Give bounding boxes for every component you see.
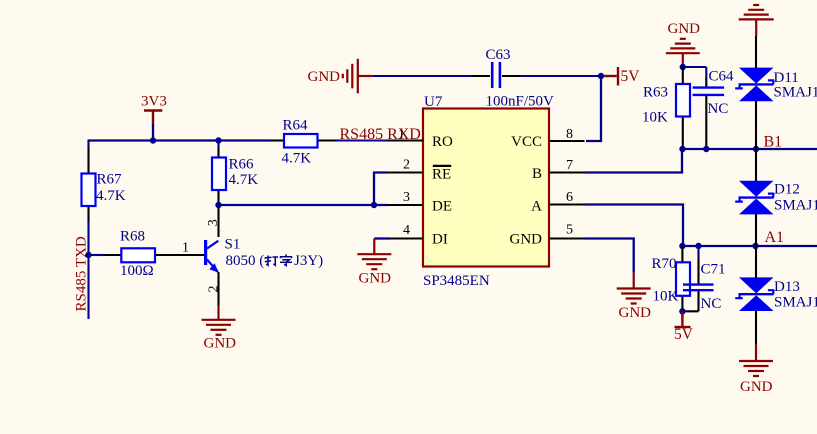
wire D12-A	[755, 214, 757, 246]
svg-text:4: 4	[403, 223, 410, 238]
wire RE drop	[374, 173, 388, 206]
wire GND net (pin5)	[585, 239, 634, 273]
svg-text:R68: R68	[120, 229, 145, 245]
svg-text:100Ω: 100Ω	[120, 263, 154, 279]
svg-text:B1: B1	[764, 134, 783, 151]
svg-text:RO: RO	[432, 134, 453, 150]
svg-text:RS485 TXD: RS485 TXD	[74, 236, 90, 311]
wire left vertical TXD	[87, 140, 89, 320]
svg-text:NC: NC	[708, 101, 729, 117]
diode D13 (TVS)	[735, 277, 774, 311]
node R70 bottom junction	[679, 308, 685, 314]
svg-text:DE: DE	[432, 199, 452, 215]
svg-text:7: 7	[566, 158, 573, 173]
diode D11 (TVS)	[735, 68, 774, 102]
svg-text:R66: R66	[229, 157, 255, 173]
ground (S1 emitter)	[202, 320, 236, 335]
node B/R63	[679, 146, 685, 152]
svg-text:R64: R64	[283, 118, 309, 134]
svg-text:GND: GND	[359, 271, 392, 287]
pin 6 A	[549, 203, 586, 205]
svg-text:NC: NC	[701, 296, 722, 312]
node B/D11	[753, 146, 759, 152]
pin 2 RE	[388, 171, 424, 173]
resistor R64	[219, 139, 388, 141]
svg-text:GND: GND	[308, 69, 341, 85]
svg-text:GND: GND	[740, 379, 773, 395]
resistor R63	[676, 84, 690, 117]
svg-text:D12: D12	[774, 182, 800, 198]
svg-text:8050 (: 8050 (	[226, 253, 265, 269]
svg-text:100nF/50V: 100nF/50V	[486, 94, 555, 110]
svg-text:2: 2	[403, 158, 410, 173]
svg-text:R70: R70	[652, 256, 677, 272]
wire A net	[585, 205, 684, 247]
svg-text:5: 5	[566, 223, 573, 238]
svg-text:SMAJ12CA: SMAJ12CA	[774, 85, 817, 101]
svg-text:4.7K: 4.7K	[96, 188, 126, 204]
ground (left of C63, rotated)	[343, 59, 373, 94]
svg-text:SMAJ12CA: SMAJ12CA	[774, 295, 817, 311]
svg-text:SP3485EN: SP3485EN	[423, 273, 490, 289]
resistor R70	[681, 246, 683, 311]
wire R68 row	[89, 254, 205, 256]
svg-text:GND: GND	[668, 21, 701, 37]
node 5V junction	[598, 73, 604, 79]
ground (DI)	[357, 254, 391, 269]
wire VCC drop	[586, 76, 601, 141]
wire top rail to C63	[373, 75, 601, 77]
ground (top right, inverted)	[739, 5, 774, 19]
wire A-D13	[755, 246, 757, 278]
node collector/R66/DE junction	[215, 202, 221, 208]
svg-text:J3Y): J3Y)	[294, 253, 323, 269]
op-amp U7 body	[423, 109, 549, 267]
svg-text:10K: 10K	[653, 289, 679, 305]
transistor S1 8050	[204, 240, 219, 273]
svg-text:D13: D13	[774, 279, 800, 295]
svg-text:R67: R67	[97, 172, 123, 188]
svg-text:GND: GND	[204, 336, 237, 352]
wire collector	[217, 205, 219, 237]
svg-text:RE: RE	[432, 167, 451, 183]
ground stem (S1)	[217, 305, 219, 320]
svg-text:5V: 5V	[621, 68, 641, 85]
node 3V3 junction	[150, 137, 156, 143]
svg-text:1: 1	[182, 241, 189, 256]
svg-text:B: B	[532, 166, 542, 182]
resistor R66	[217, 141, 219, 206]
svg-text:C64: C64	[709, 69, 735, 85]
wire B net	[585, 149, 683, 173]
node A/D12	[752, 243, 758, 249]
node A/R70	[679, 243, 685, 249]
svg-text:A: A	[531, 199, 542, 215]
pin 8 VCC	[549, 140, 585, 142]
pin 4 DI	[374, 237, 390, 239]
power port 5V (top)	[603, 67, 618, 86]
capacitor C63	[492, 62, 500, 88]
svg-text:8: 8	[566, 127, 573, 142]
svg-text:GND: GND	[619, 305, 652, 321]
wire D13 bottom	[755, 311, 757, 345]
pin 3 DE	[388, 204, 424, 206]
hanzi zi (drawn)	[280, 254, 292, 265]
ground stem (DI)	[373, 239, 375, 255]
node R66/R64 junction	[215, 137, 221, 143]
svg-text:A1: A1	[765, 229, 785, 246]
wire D11 top	[755, 36, 757, 68]
ground (bottom right)	[739, 361, 773, 376]
node A/C71	[695, 243, 701, 249]
wire main rail y140	[89, 139, 271, 141]
pin 1 RO	[388, 139, 424, 141]
wire 3V3 stem	[152, 124, 154, 141]
svg-text:R63: R63	[643, 85, 668, 101]
resistor R68	[121, 248, 155, 262]
svg-text:SMAJ12CA: SMAJ12CA	[774, 198, 817, 214]
ground (above R63, inverted)	[666, 39, 700, 53]
ground stem (top right)	[755, 19, 757, 36]
wire B line	[682, 148, 817, 150]
power port 5V (bottom)	[675, 311, 691, 327]
node TXD/R68 junction	[85, 252, 91, 258]
capacitor C71	[682, 246, 698, 311]
wire B-D12	[755, 149, 757, 181]
svg-text:4.7K: 4.7K	[229, 172, 259, 188]
pin 5 GND	[549, 237, 586, 239]
node R63 top junction	[680, 64, 686, 70]
svg-text:C63: C63	[486, 47, 511, 63]
svg-text:5V: 5V	[674, 326, 694, 343]
wire R63/C64 top	[683, 67, 707, 149]
svg-text:U7: U7	[424, 94, 443, 110]
diode D12 (TVS)	[735, 181, 774, 215]
capacitor C64	[693, 88, 725, 95]
ground (pin5)	[617, 289, 651, 304]
hanzi da (drawn)	[265, 256, 279, 266]
ground stem (above R63)	[682, 53, 684, 67]
wire D11-B	[755, 101, 757, 149]
wire A line	[682, 245, 817, 247]
svg-text:3: 3	[403, 190, 410, 205]
svg-text:S1: S1	[225, 237, 241, 253]
wire DE row	[219, 204, 375, 206]
resistor R67	[82, 174, 96, 207]
wire DE to pin3	[374, 204, 388, 206]
ground stem (pin5)	[633, 273, 635, 289]
wire emitter	[217, 272, 219, 305]
node B/C64	[703, 146, 709, 152]
svg-text:1: 1	[398, 128, 405, 143]
svg-text:6: 6	[566, 190, 573, 205]
pin 7 B	[549, 171, 586, 173]
node DE/RE junction	[371, 202, 377, 208]
svg-text:4.7K: 4.7K	[282, 150, 312, 166]
svg-text:3V3: 3V3	[141, 94, 167, 110]
ground stem (bottom right)	[755, 344, 757, 361]
svg-text:C71: C71	[701, 262, 726, 278]
svg-text:VCC: VCC	[511, 134, 542, 150]
svg-text:GND: GND	[510, 232, 543, 248]
svg-text:10K: 10K	[642, 110, 668, 126]
power port 3V3	[144, 111, 162, 126]
svg-text:DI: DI	[432, 232, 448, 248]
